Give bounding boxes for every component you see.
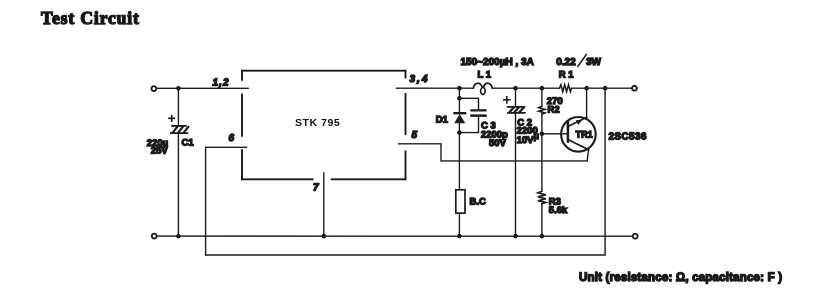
output terminal + — [632, 86, 637, 91]
resistor R3 — [538, 134, 568, 234]
pin 1,2 label — [213, 78, 230, 89]
node C2 top — [513, 86, 518, 91]
node B.C ground — [457, 234, 462, 239]
inductor L1 — [461, 57, 534, 95]
svg-text:L 1: L 1 — [478, 69, 492, 80]
wire pin 5 to emitter — [399, 144, 588, 161]
wire D1 to B.C — [458, 133, 460, 190]
wire base — [542, 133, 568, 135]
svg-text:C1: C1 — [182, 138, 195, 149]
svg-text:1,2: 1,2 — [213, 78, 230, 89]
svg-text:R2: R2 — [548, 105, 560, 116]
diode D1 — [436, 88, 466, 132]
svg-text:5.6k: 5.6k — [549, 205, 568, 216]
svg-text:STK 795: STK 795 — [295, 117, 340, 129]
svg-text:0.22: 0.22 — [556, 57, 576, 68]
wire pin 7 — [323, 173, 325, 234]
svg-text:25V: 25V — [151, 146, 169, 157]
wire pin 3,4 to L1 — [397, 87, 474, 89]
capacitor C2 — [504, 88, 539, 233]
svg-text:50V: 50V — [489, 138, 507, 149]
svg-text:Test Circuit: Test Circuit — [41, 8, 140, 28]
node C2 ground — [513, 234, 518, 239]
svg-text:Unit (resistance: Ω, capacitan: Unit (resistance: Ω, capacitance: F ) — [579, 272, 782, 284]
svg-text:6: 6 — [229, 133, 235, 144]
node C1 top junction — [176, 86, 181, 91]
svg-text:R 1: R 1 — [559, 69, 575, 80]
svg-text:7: 7 — [313, 183, 319, 194]
svg-text:2SC536: 2SC536 — [609, 132, 647, 143]
pin 5 label — [412, 130, 418, 141]
svg-text:TR1: TR1 — [576, 129, 593, 139]
pin 6 label — [229, 133, 235, 144]
capacitor C1 — [147, 88, 195, 233]
capacitor C3 — [459, 98, 508, 149]
load B.C — [456, 190, 486, 234]
wire pin 6 — [206, 147, 247, 255]
svg-text:B.C: B.C — [470, 197, 487, 208]
resistor R1 — [556, 55, 601, 92]
input terminal - — [152, 234, 157, 239]
svg-text:150~200µH , 3A: 150~200µH , 3A — [461, 57, 534, 68]
transistor TR1 — [561, 88, 647, 161]
unit note — [579, 272, 782, 284]
svg-text:10V: 10V — [517, 135, 535, 146]
node D1 bottom — [457, 130, 462, 135]
title Test Circuit — [41, 8, 140, 28]
node R2 top — [540, 86, 545, 91]
wire R1 to output — [572, 87, 632, 89]
wire bootstrap bottom — [206, 90, 605, 255]
svg-text:5: 5 — [412, 130, 418, 141]
output terminal - — [633, 234, 638, 239]
node pin7 ground — [322, 234, 327, 239]
wire input to pin 1,2 — [157, 87, 248, 89]
node C1 bottom — [176, 234, 181, 239]
node bootstrap top — [603, 86, 608, 91]
pin 7 label — [313, 183, 319, 194]
input terminal + — [152, 86, 157, 91]
node base junction — [540, 132, 545, 137]
node D1 top — [457, 86, 462, 91]
svg-text:3,4: 3,4 — [410, 74, 430, 85]
IC STK795 box — [242, 71, 406, 180]
wire L1 to R1 — [492, 87, 559, 89]
svg-text:D1: D1 — [436, 115, 449, 126]
ground rail — [157, 235, 632, 237]
node R3 ground — [540, 234, 545, 239]
resistor R2 — [539, 88, 563, 134]
svg-text:µ: µ — [534, 131, 539, 142]
pin 3,4 label — [410, 74, 430, 85]
node D1 C3 branch — [457, 96, 462, 101]
node TR1 collector top — [584, 86, 589, 91]
svg-text:3W: 3W — [586, 57, 602, 68]
